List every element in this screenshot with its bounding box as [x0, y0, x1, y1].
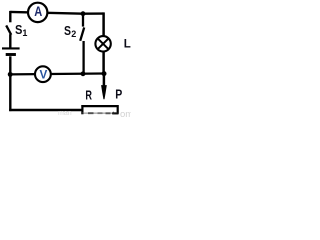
- svg-text:A: A: [34, 3, 42, 19]
- wire lamp to middle bus: [102, 51, 105, 74]
- wire top-right corner down to lamp: [102, 12, 105, 36]
- node junction lamp / middle bus: [102, 71, 107, 76]
- lamp X stroke 1: [98, 38, 109, 49]
- svg-text:2: 2: [71, 29, 76, 39]
- wire middle bus (voltmeter branch): [10, 72, 103, 75]
- switch S1 blade: [6, 25, 11, 34]
- wire bottom bus: [9, 109, 82, 111]
- svg-text:S: S: [64, 24, 71, 38]
- svg-text:L: L: [124, 38, 131, 50]
- wire S2 to middle bus: [82, 41, 84, 74]
- resistor R box left edge: [81, 105, 83, 113]
- switch S2 blade: [80, 27, 84, 40]
- svg-text:1: 1: [22, 28, 27, 38]
- node junction on top bus: [81, 11, 86, 16]
- voltmeter V body: [35, 66, 51, 82]
- battery short plate: [6, 53, 16, 56]
- lamp L body: [95, 36, 110, 51]
- svg-text:om: om: [120, 109, 131, 118]
- battery long plate: [2, 47, 20, 49]
- wire S1 to battery: [9, 34, 11, 47]
- svg-text:V: V: [40, 67, 48, 81]
- wire wiper stem: [103, 74, 106, 87]
- svg-text:man: man: [58, 110, 72, 117]
- wire battery to bottom-left corner: [9, 56, 11, 111]
- resistor R box right edge: [117, 105, 119, 114]
- resistor R box top edge: [81, 105, 118, 107]
- node junction S2 / middle bus: [81, 71, 86, 76]
- wiper contact nub: [112, 111, 115, 114]
- wire top bus: [10, 12, 103, 14]
- potentiometer wiper arrow: [101, 85, 107, 99]
- lamp X stroke 2: [98, 38, 109, 49]
- svg-text:P: P: [115, 88, 122, 102]
- svg-text:R: R: [85, 88, 92, 102]
- resistor R box bottom edge (faded by watermark): [82, 112, 117, 114]
- ammeter A body: [28, 3, 47, 22]
- wire switch S2 upper stub: [82, 14, 84, 27]
- wire left upper (corner to switch S1): [9, 11, 11, 22]
- svg-text:S: S: [15, 23, 22, 37]
- node junction on left wire: [8, 72, 13, 77]
